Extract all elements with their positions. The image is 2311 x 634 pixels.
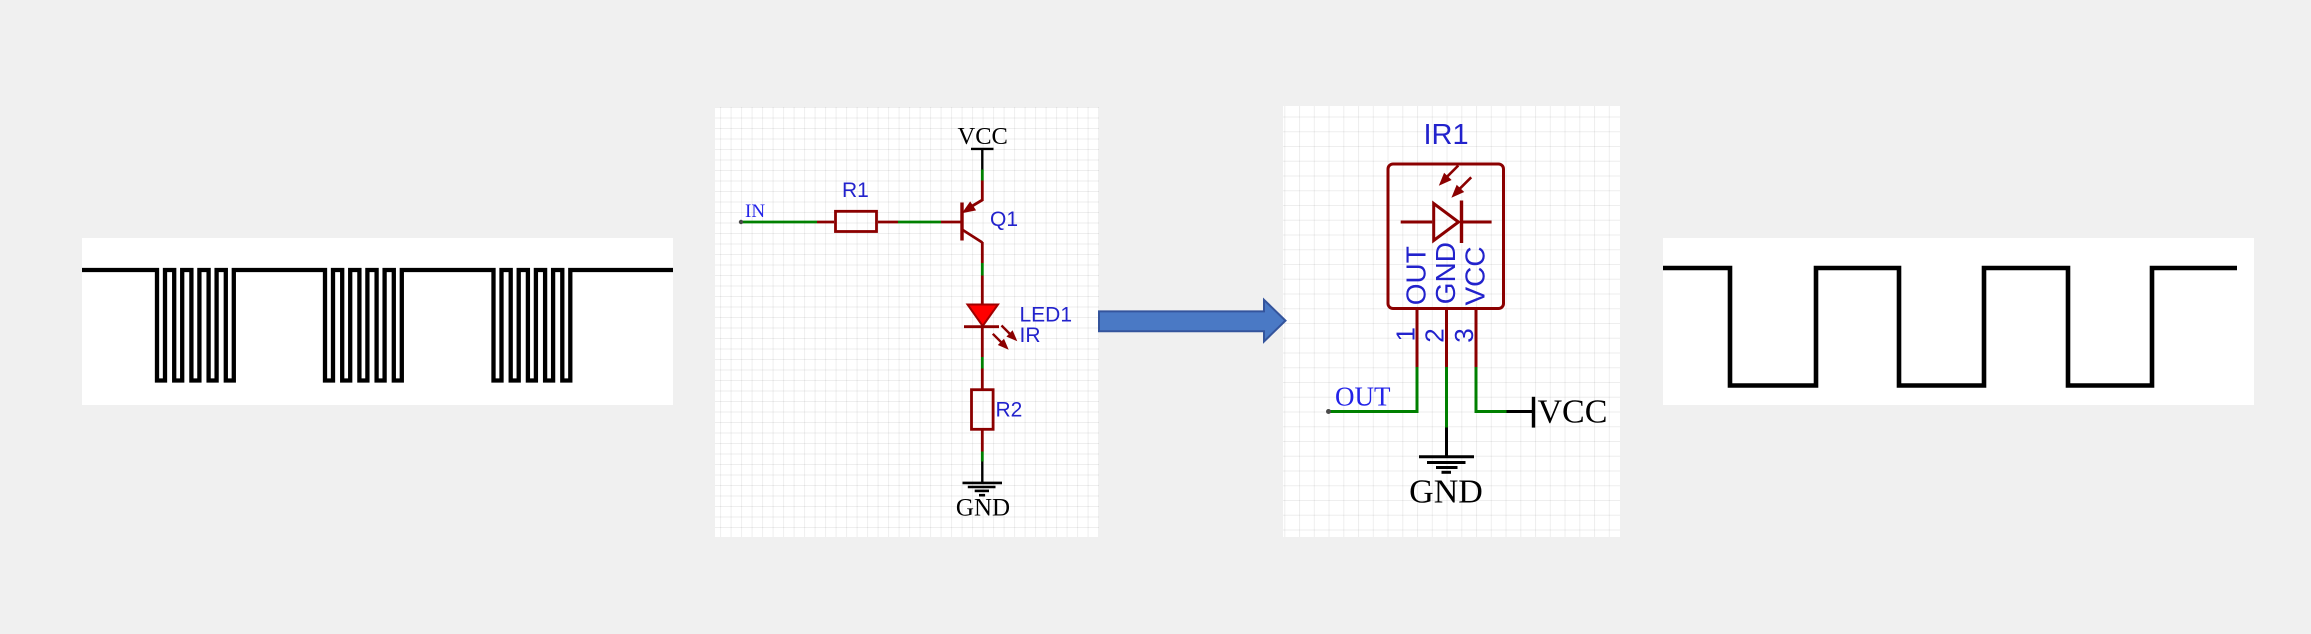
svg-text:IR: IR — [1020, 324, 1041, 347]
svg-text:VCC: VCC — [1538, 394, 1608, 431]
svg-text:R2: R2 — [996, 399, 1023, 422]
svg-text:VCC: VCC — [958, 123, 1008, 150]
svg-text:R1: R1 — [842, 179, 869, 202]
svg-text:VCC: VCC — [1460, 246, 1491, 305]
svg-text:IN: IN — [745, 201, 765, 222]
svg-text:3: 3 — [1449, 328, 1479, 342]
svg-text:2: 2 — [1420, 328, 1450, 342]
svg-text:GND: GND — [1409, 474, 1483, 511]
svg-text:OUT: OUT — [1401, 246, 1432, 305]
svg-text:1: 1 — [1390, 327, 1420, 341]
svg-text:IR1: IR1 — [1424, 119, 1469, 151]
svg-text:OUT: OUT — [1335, 382, 1391, 412]
svg-text:GND: GND — [956, 495, 1010, 522]
svg-text:Q1: Q1 — [990, 208, 1018, 231]
svg-text:GND: GND — [1430, 242, 1461, 304]
